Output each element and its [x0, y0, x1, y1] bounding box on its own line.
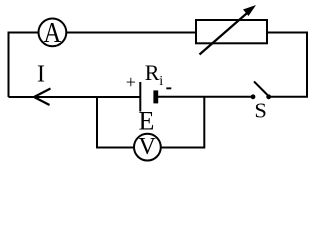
current arrow I	[34, 62, 51, 106]
wire top left (corner to ammeter)	[8, 32, 40, 34]
svg-text:+: +	[126, 72, 136, 92]
wire top middle (ammeter to rheostat)	[66, 32, 197, 34]
voltmeter branch bottom left wire	[96, 147, 135, 149]
wire right corner to switch	[269, 96, 308, 98]
wire top right (rheostat to corner)	[267, 32, 307, 34]
rheostat R (variable resistor)	[196, 5, 267, 55]
wire middle left (corner to battery)	[9, 96, 141, 98]
label -	[166, 87, 171, 89]
battery cell E with internal resistance	[126, 60, 172, 135]
svg-text:V: V	[139, 134, 157, 160]
voltmeter branch bottom right wire	[160, 147, 204, 149]
wire left vertical	[8, 33, 10, 98]
switch S	[251, 82, 272, 123]
voltmeter branch right vertical	[203, 97, 205, 149]
svg-text:I: I	[37, 62, 45, 88]
voltmeter branch left vertical	[96, 97, 98, 148]
battery short thick plate (-)	[153, 90, 158, 103]
svg-text:R: R	[145, 60, 160, 85]
voltmeter V1	[134, 134, 161, 161]
svg-text:A: A	[44, 17, 62, 49]
svg-text:S: S	[254, 98, 267, 122]
wire right vertical	[306, 32, 308, 98]
svg-text:E: E	[138, 106, 154, 135]
svg-text:i: i	[159, 74, 163, 89]
wire middle right (battery to switch)	[158, 96, 253, 98]
battery long plate (+)	[139, 82, 141, 112]
ammeter A1	[39, 17, 67, 49]
